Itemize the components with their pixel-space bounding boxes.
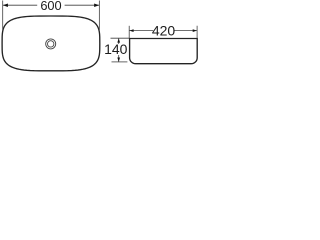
svg-text:420: 420 <box>152 23 176 39</box>
basin top-view outline <box>2 16 100 71</box>
extension line right of 600 <box>98 1 100 31</box>
arrowhead 420 right <box>193 29 197 32</box>
arrowhead 600 left <box>3 3 8 6</box>
arrowhead 140 top <box>117 38 120 42</box>
dimension line 600 left segment <box>3 4 37 6</box>
dimension line 420 left segment <box>129 30 153 32</box>
drain outer circle <box>46 39 56 49</box>
drain inner circle <box>48 41 54 47</box>
extension line right of 420 <box>196 26 198 38</box>
arrowhead 140 bottom <box>117 58 120 62</box>
extension line top of 140 <box>111 37 130 39</box>
basin side-view outline <box>130 39 198 64</box>
extension line bottom of 140 <box>112 61 128 63</box>
arrowhead 420 left <box>129 29 133 32</box>
extension line left of 420 <box>128 26 130 38</box>
dimension line 420 right segment <box>174 30 197 32</box>
dimension line 140 upper segment <box>118 39 120 45</box>
extension line left of 600 <box>2 1 4 31</box>
dimension line 600 right segment <box>65 4 99 6</box>
svg-text:140: 140 <box>104 41 128 57</box>
dimension line 140 lower segment <box>118 55 120 62</box>
svg-text:600: 600 <box>40 0 61 13</box>
arrowhead 600 right <box>94 3 99 6</box>
